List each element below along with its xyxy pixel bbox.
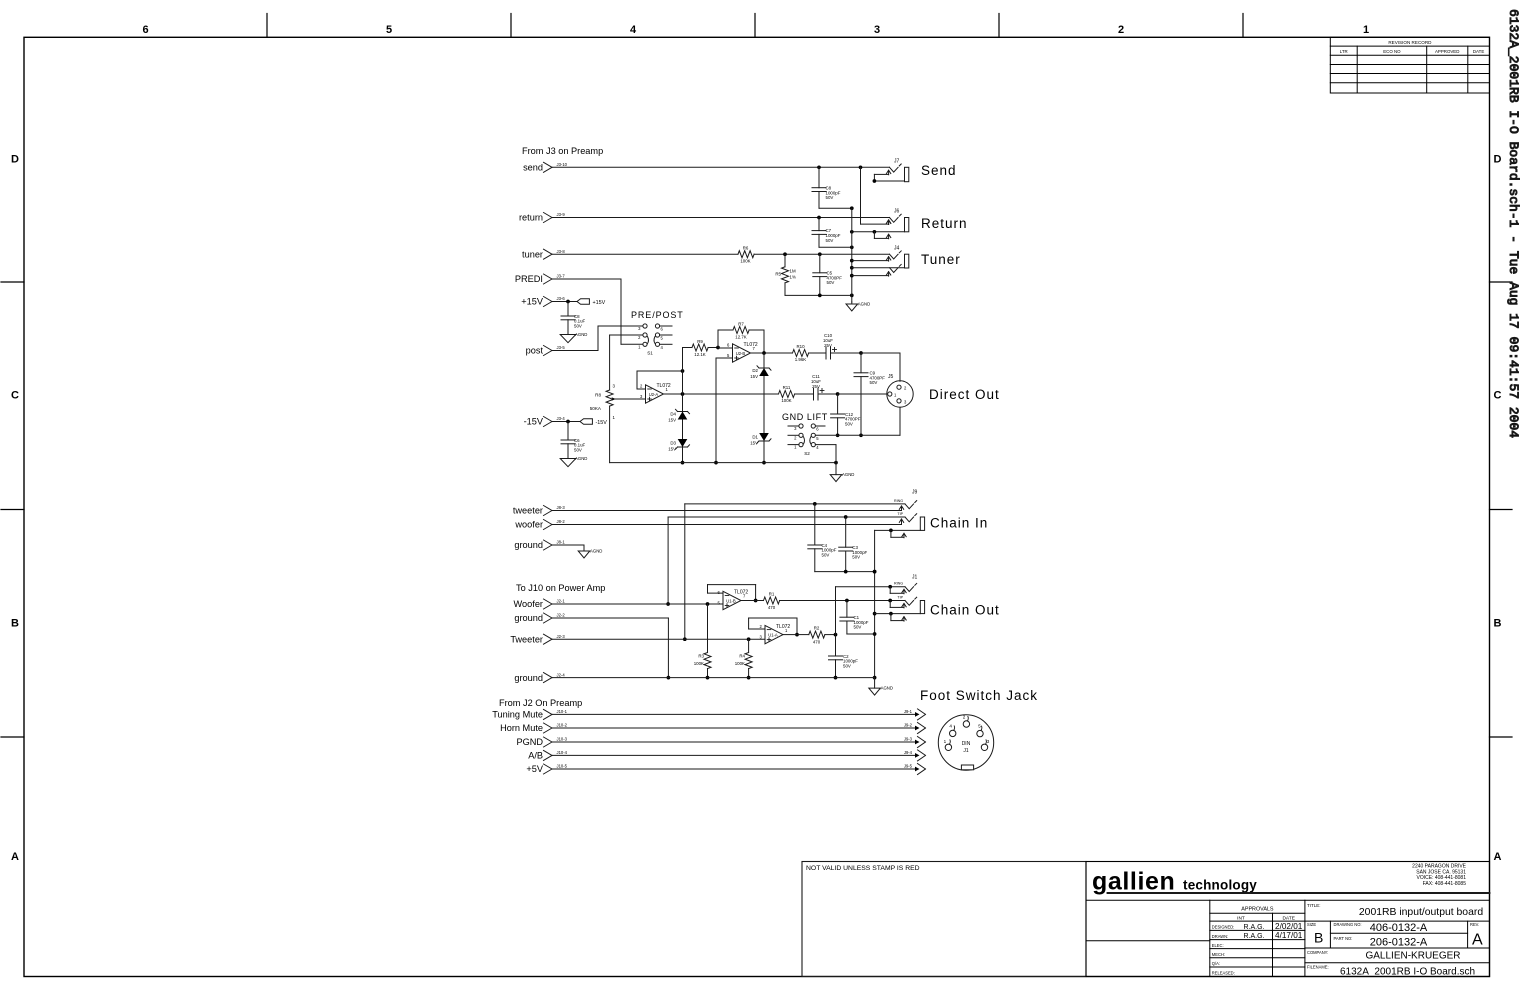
wire gnd lift net	[815, 407, 900, 435]
svg-text:50V: 50V	[845, 421, 853, 426]
svg-text:+15V: +15V	[521, 297, 544, 307]
svg-text:J9-2: J9-2	[904, 723, 913, 728]
svg-text:ground: ground	[514, 673, 543, 683]
svg-text:Tweeter: Tweeter	[510, 634, 543, 644]
svg-text:1%: 1%	[790, 275, 796, 280]
wire U2-B output net	[751, 351, 793, 355]
svg-text:J9-1: J9-1	[904, 709, 913, 714]
wire chain-out ring net	[836, 587, 906, 656]
capacitor C11 10uF	[795, 374, 840, 400]
svg-text:2/02/01: 2/02/01	[1275, 922, 1303, 931]
connector J5 XLR direct out	[887, 374, 913, 407]
wire chain-in tip net	[666, 515, 905, 606]
svg-text:DIN: DIN	[962, 741, 971, 747]
svg-text:J8-3: J8-3	[557, 505, 566, 510]
svg-text:AGND: AGND	[858, 302, 870, 307]
svg-text:AGND: AGND	[881, 686, 893, 691]
label Chain Out	[930, 603, 1000, 618]
switch S1 PRE/POST	[638, 324, 672, 356]
input port -15V (J3-4)	[524, 416, 566, 427]
input port woofer (J8-2)	[514, 519, 565, 530]
svg-text:-15V: -15V	[596, 420, 608, 426]
input port A/B (J10-4)	[528, 750, 567, 761]
svg-text:tuner: tuner	[522, 249, 543, 259]
svg-text:50V: 50V	[826, 238, 834, 243]
svg-text:6132A_2001RB I-O Board.sch-1 -: 6132A_2001RB I-O Board.sch-1 - Tue Aug 1…	[1506, 9, 1521, 438]
svg-text:AGND: AGND	[590, 549, 602, 554]
label Direct Out	[929, 387, 1000, 402]
svg-text:AGND: AGND	[575, 456, 587, 461]
svg-text:1: 1	[1363, 24, 1369, 36]
svg-text:D4: D4	[670, 412, 676, 417]
wire U1-B feedback	[708, 585, 758, 603]
capacitor C7 1000pF (return)	[812, 218, 854, 250]
power flag +15V	[553, 299, 606, 306]
svg-text:woofer: woofer	[514, 520, 543, 530]
resistor R3 100K	[694, 604, 711, 679]
jack J1 Chain Out	[875, 575, 925, 622]
svg-text:ground: ground	[514, 540, 543, 550]
svg-text:Chain In: Chain In	[930, 516, 988, 531]
svg-text:12.1K: 12.1K	[694, 352, 706, 357]
zener D2 15V	[750, 353, 771, 464]
wire U1-A feedback	[749, 618, 799, 636]
svg-text:R2: R2	[814, 626, 820, 631]
svg-text:B: B	[11, 618, 19, 630]
svg-text:J9-5: J9-5	[904, 764, 913, 769]
svg-text:J9-3: J9-3	[904, 737, 913, 742]
svg-text:470: 470	[813, 640, 821, 645]
svg-text:U2-A: U2-A	[649, 392, 659, 397]
svg-text:25V: 25V	[824, 343, 832, 348]
svg-text:+5V: +5V	[526, 764, 543, 774]
stamp box NOT VALID UNLESS STAMP IS RED	[802, 862, 1086, 977]
svg-text:RELEASED:: RELEASED:	[1212, 971, 1235, 976]
input port PGND (J10-3)	[516, 737, 567, 748]
svg-text:FAX: 408-441-8085: FAX: 408-441-8085	[1423, 881, 1467, 887]
svg-text:D: D	[11, 154, 19, 166]
svg-text:50V: 50V	[826, 195, 834, 200]
svg-text:PRE/POST: PRE/POST	[631, 310, 684, 320]
svg-text:DATE: DATE	[1473, 49, 1484, 54]
svg-text:A: A	[1472, 932, 1483, 949]
wire analog ground bus	[850, 208, 854, 302]
wire foot switch line J9-1	[553, 709, 926, 720]
svg-text:S1: S1	[647, 351, 653, 356]
svg-text:6132A_2001RB I-O Board.sch: 6132A_2001RB I-O Board.sch	[1340, 966, 1475, 977]
svg-text:Send: Send	[921, 163, 957, 178]
svg-text:2: 2	[963, 715, 966, 720]
input port ground (J8-1)	[514, 540, 565, 551]
svg-text:R6: R6	[743, 246, 749, 251]
svg-text:REVISION RECORD: REVISION RECORD	[1388, 40, 1432, 45]
svg-text:3: 3	[987, 739, 990, 744]
svg-text:B: B	[1314, 930, 1323, 946]
svg-text:J3-7: J3-7	[557, 274, 566, 279]
label PRE/POST	[631, 310, 684, 320]
wire S2 pin4 to ground	[815, 445, 836, 463]
svg-text:From J2 On Preamp: From J2 On Preamp	[499, 698, 582, 708]
wire tweeter amp input	[553, 637, 766, 641]
switch S2 GND LIFT	[788, 424, 825, 456]
input port Tuning Mute (J10-1)	[492, 709, 567, 720]
wire tweeter net	[553, 506, 904, 511]
svg-text:50V: 50V	[827, 280, 835, 285]
wire PREDI net	[553, 279, 644, 344]
svg-text:15V: 15V	[750, 374, 758, 379]
input port tuner (J3-8)	[522, 249, 565, 260]
svg-text:S2: S2	[804, 451, 810, 456]
resistor R2 470	[783, 626, 837, 645]
input port return (J3-9)	[519, 212, 565, 223]
svg-text:Woofer: Woofer	[514, 599, 543, 609]
svg-text:TL072: TL072	[776, 624, 790, 630]
svg-text:TIP: TIP	[897, 512, 903, 516]
svg-text:DRAWN:: DRAWN:	[1212, 934, 1228, 939]
label GND LIFT	[782, 412, 828, 422]
input port Horn Mute (J10-2)	[500, 723, 568, 734]
svg-text:R9: R9	[697, 339, 703, 344]
svg-text:TITLE:: TITLE:	[1307, 903, 1321, 908]
svg-text:2001RB input/output board: 2001RB input/output board	[1359, 907, 1483, 918]
svg-text:R1: R1	[769, 592, 775, 597]
svg-text:25V: 25V	[812, 384, 820, 389]
svg-text:J3-9: J3-9	[557, 212, 566, 217]
svg-text:J3-4: J3-4	[557, 416, 566, 421]
wire chain-in ring net	[683, 502, 905, 641]
svg-text:REV.: REV.	[1470, 922, 1479, 927]
svg-text:J10-1: J10-1	[557, 709, 568, 714]
svg-text:R8: R8	[595, 393, 601, 398]
zener D4 15V	[668, 409, 689, 422]
svg-text:J10-4: J10-4	[557, 750, 568, 755]
svg-text:J3-6: J3-6	[557, 296, 566, 301]
resistor R5 1M	[775, 254, 796, 295]
capacitor C3 1000pF	[839, 517, 877, 573]
svg-text:206-0132-A: 206-0132-A	[1370, 937, 1428, 949]
svg-text:Tuner: Tuner	[921, 252, 961, 267]
svg-text:15V: 15V	[668, 447, 676, 452]
wire send net	[553, 165, 891, 224]
resistor R11 100K	[779, 385, 795, 403]
svg-text:R3: R3	[698, 654, 704, 659]
connector J1 DIN foot switch jack	[938, 715, 993, 771]
svg-text:15V: 15V	[750, 441, 758, 446]
svg-text:J2-1: J2-1	[557, 599, 566, 604]
svg-text:D: D	[1494, 154, 1502, 166]
svg-text:5: 5	[386, 24, 392, 36]
wire return net	[553, 216, 890, 220]
svg-text:ground: ground	[514, 613, 543, 623]
resistor R9 12.1K	[683, 339, 720, 357]
note To J10 on Power Amp	[516, 583, 605, 593]
input port ground (J2-2)	[514, 613, 565, 624]
svg-text:J7: J7	[894, 159, 900, 165]
svg-text:GALLIEN-KRUEGER: GALLIEN-KRUEGER	[1365, 951, 1460, 962]
svg-text:From J3 on Preamp: From J3 on Preamp	[522, 146, 603, 156]
svg-text:50V: 50V	[852, 555, 860, 560]
svg-text:post: post	[526, 346, 544, 356]
svg-text:4: 4	[630, 24, 637, 36]
svg-text:technology: technology	[1183, 878, 1257, 893]
jack J6 Return	[850, 209, 909, 239]
svg-text:Tuning Mute: Tuning Mute	[492, 710, 543, 720]
label Chain In	[930, 516, 988, 531]
svg-text:To J10 on Power Amp: To J10 on Power Amp	[516, 583, 605, 593]
zener D1 15V	[750, 433, 771, 446]
svg-text:+15V: +15V	[593, 300, 606, 306]
svg-text:J8-1: J8-1	[557, 540, 566, 545]
svg-text:C: C	[11, 390, 19, 402]
svg-text:B: B	[1494, 618, 1502, 630]
svg-text:50V: 50V	[854, 625, 862, 630]
svg-text:PREDI: PREDI	[515, 274, 543, 284]
wire foot switch line J9-5	[553, 764, 926, 775]
svg-text:406-0132-A: 406-0132-A	[1370, 922, 1428, 934]
label Tuner	[921, 252, 961, 267]
svg-text:TL072: TL072	[657, 383, 671, 389]
svg-text:return: return	[519, 213, 543, 223]
svg-text:D1: D1	[752, 435, 758, 440]
svg-text:J4: J4	[894, 246, 900, 252]
svg-text:100K: 100K	[694, 661, 704, 666]
ground AGND (direct out)	[830, 463, 854, 482]
svg-text:J5: J5	[888, 374, 894, 380]
capacitor C8 1000pF (send)	[812, 167, 854, 210]
capacitor C12 4700PF	[831, 394, 861, 437]
svg-text:4/17/01: 4/17/01	[1275, 931, 1303, 940]
wire chain sleeve spine	[873, 530, 877, 679]
svg-text:50V: 50V	[870, 380, 878, 385]
svg-text:6: 6	[142, 24, 148, 36]
svg-text:ECO NO: ECO NO	[1383, 49, 1401, 54]
svg-text:50KA: 50KA	[590, 406, 602, 411]
title block	[1086, 862, 1490, 977]
input port +15V (J3-6)	[521, 296, 565, 307]
wire foot switch line J9-3	[553, 737, 926, 748]
svg-text:100K: 100K	[781, 398, 791, 403]
svg-text:-15V: -15V	[524, 417, 544, 427]
svg-text:U2-B: U2-B	[736, 351, 746, 356]
svg-text:TL072: TL072	[744, 342, 758, 348]
capacitor C10 10uF	[809, 333, 863, 359]
input port Woofer (J2-1)	[514, 599, 566, 610]
svg-text:DATE: DATE	[1282, 915, 1294, 921]
op-amp U1-B TL072	[708, 590, 749, 610]
svg-text:D2: D2	[752, 368, 758, 373]
capacitor C2 1000pF	[829, 654, 859, 680]
svg-text:APPROVALS: APPROVALS	[1241, 907, 1274, 913]
input port PREDI (J3-7)	[515, 274, 565, 285]
svg-text:tweeter: tweeter	[513, 506, 543, 516]
input port ground (J2-4)	[514, 672, 565, 683]
input port post (J3-5)	[526, 345, 566, 356]
svg-text:AGND: AGND	[842, 472, 854, 477]
svg-text:100K: 100K	[735, 661, 745, 666]
svg-text:R10: R10	[796, 344, 805, 349]
revision record table	[1330, 37, 1489, 93]
input port +5V (J10-5)	[526, 764, 567, 775]
input port send (J3-10)	[523, 162, 568, 173]
resistor R1 470	[741, 592, 905, 611]
svg-text:1: 1	[944, 739, 947, 744]
svg-text:U1-A: U1-A	[768, 632, 778, 637]
svg-text:A: A	[1494, 851, 1502, 863]
svg-text:Q/A:: Q/A:	[1212, 961, 1220, 966]
svg-text:DRAWING NO:: DRAWING NO:	[1334, 922, 1362, 927]
svg-text:DESIGNED:: DESIGNED:	[1212, 925, 1235, 930]
svg-text:J8-2: J8-2	[557, 519, 566, 524]
svg-text:R7: R7	[738, 322, 744, 327]
wire U2-B +in to ground rail	[714, 358, 718, 464]
zener D3 15V	[668, 439, 689, 452]
svg-text:AGND: AGND	[575, 332, 587, 337]
svg-text:J10-3: J10-3	[557, 737, 568, 742]
svg-text:J1: J1	[912, 575, 918, 581]
plot stamp text (vertical)	[1506, 9, 1521, 438]
svg-text:Foot Switch Jack: Foot Switch Jack	[920, 688, 1038, 703]
capacitor C8 0.1uF (+15V bypass)	[561, 302, 586, 334]
wire node R9/zener column	[681, 348, 685, 465]
op-amp U2-B TL072	[716, 342, 758, 362]
svg-text:MECH:: MECH:	[1212, 952, 1225, 957]
svg-text:R4: R4	[739, 654, 745, 659]
svg-text:15V: 15V	[668, 418, 676, 423]
note From J2 On Preamp	[499, 698, 582, 708]
svg-text:RING: RING	[894, 499, 903, 503]
wire post net	[553, 326, 644, 351]
jack J4 Tuner	[852, 246, 909, 277]
svg-text:GND LIFT: GND LIFT	[782, 412, 828, 422]
resistor R4 100K	[735, 639, 752, 679]
svg-text:1M: 1M	[790, 269, 796, 274]
svg-text:J9: J9	[912, 490, 918, 496]
capacitor C9 4700PF	[854, 353, 885, 437]
svg-text:COMPANY:: COMPANY:	[1307, 950, 1328, 955]
potentiometer R8 50KA	[590, 335, 646, 463]
svg-text:5: 5	[978, 724, 981, 729]
wire analog rail (direct out section)	[610, 461, 838, 465]
wire to XLR pin2	[861, 353, 900, 381]
input port Tweeter (J2-3)	[510, 634, 565, 645]
svg-text:100K: 100K	[740, 259, 750, 264]
svg-text:SIZE: SIZE	[1307, 922, 1316, 927]
svg-text:APPROVED: APPROVED	[1435, 49, 1459, 54]
svg-text:Direct Out: Direct Out	[929, 387, 1000, 402]
svg-text:470: 470	[768, 605, 776, 610]
approvals table text	[1212, 907, 1303, 976]
svg-text:PGND: PGND	[516, 737, 543, 747]
wire foot switch line J9-2	[553, 723, 926, 734]
wire S1 pin2 to R8	[610, 334, 643, 336]
svg-text:INT: INT	[1237, 915, 1245, 921]
svg-text:50V: 50V	[822, 552, 830, 557]
svg-text:J10-2: J10-2	[557, 723, 568, 728]
svg-text:2: 2	[1118, 24, 1124, 36]
svg-text:PART NO:: PART NO:	[1334, 936, 1353, 941]
svg-text:Return: Return	[921, 216, 968, 231]
input port tweeter (J8-3)	[513, 505, 565, 516]
resistor R6 100K	[738, 246, 754, 264]
ground AGND (+15V)	[560, 332, 587, 343]
svg-text:J1: J1	[963, 748, 969, 754]
wire U2-A feedback	[637, 369, 684, 389]
ground AGND (chain)	[869, 678, 893, 696]
svg-text:J2-2: J2-2	[557, 613, 566, 618]
svg-text:1.96K: 1.96K	[795, 357, 807, 362]
capacitor C5 4700PF (tuner)	[813, 254, 842, 295]
wire U2-A output net	[664, 392, 779, 396]
svg-text:R5: R5	[775, 272, 781, 277]
jack J7 Send	[873, 159, 909, 183]
svg-text:50V: 50V	[843, 663, 851, 668]
svg-text:J2-4: J2-4	[557, 672, 566, 677]
svg-text:FILENAME:: FILENAME:	[1307, 965, 1329, 970]
wire foot switch line J9-4	[553, 750, 926, 761]
svg-text:gallien: gallien	[1092, 868, 1175, 896]
op-amp U2-A TL072	[637, 383, 671, 403]
wire tuner ground rail	[785, 294, 854, 298]
op-amp U1-A TL072	[749, 624, 791, 644]
svg-text:A/B: A/B	[528, 751, 543, 761]
svg-text:R11: R11	[783, 385, 791, 390]
resistor R7 12.7K feedback	[718, 322, 764, 354]
svg-text:J6: J6	[894, 209, 900, 215]
svg-text:J3-5: J3-5	[557, 345, 566, 350]
svg-text:3: 3	[874, 24, 880, 36]
wire to XLR pin1	[838, 393, 887, 395]
svg-text:RING: RING	[894, 582, 903, 586]
title block text	[1307, 903, 1483, 978]
ground AGND (jack bus)	[846, 302, 870, 312]
wire woofer amp input	[553, 602, 724, 606]
svg-text:50V: 50V	[574, 323, 582, 328]
svg-text:A: A	[11, 851, 19, 863]
svg-text:50V: 50V	[574, 447, 582, 452]
svg-text:J3-10: J3-10	[557, 162, 568, 167]
capacitor C6 0.1uF (-15V bypass)	[561, 422, 586, 458]
svg-text:J3-8: J3-8	[557, 249, 566, 254]
label Foot Switch Jack	[920, 688, 1038, 703]
ground AGND (J8-1)	[553, 545, 603, 558]
svg-text:12.7K: 12.7K	[735, 335, 747, 340]
ground AGND (-15V)	[560, 456, 587, 467]
svg-text:R.A.G.: R.A.G.	[1243, 933, 1264, 940]
svg-text:send: send	[523, 163, 543, 173]
svg-text:LTR: LTR	[1340, 49, 1348, 54]
svg-text:J9-4: J9-4	[904, 750, 913, 755]
wire chain ground rail	[553, 677, 875, 679]
resistor R10 1.96K	[793, 344, 809, 362]
svg-text:NOT VALID UNLESS STAMP IS RED: NOT VALID UNLESS STAMP IS RED	[806, 865, 920, 872]
svg-text:Chain Out: Chain Out	[930, 603, 1000, 618]
svg-text:J10-5: J10-5	[557, 764, 568, 769]
svg-text:C: C	[1494, 390, 1502, 402]
label Send	[921, 163, 957, 178]
power flag -15V	[553, 419, 608, 426]
svg-text:R.A.G.: R.A.G.	[1243, 924, 1264, 931]
capacitor C1 1000pF	[840, 601, 875, 635]
address block	[1412, 864, 1466, 887]
wire woofer net	[553, 519, 904, 525]
jack J9 Chain In	[875, 490, 925, 538]
svg-text:Horn Mute: Horn Mute	[500, 723, 543, 733]
svg-text:D3: D3	[670, 441, 676, 446]
label Return	[921, 216, 968, 231]
svg-text:ELEC:: ELEC:	[1212, 943, 1224, 948]
svg-text:TIP: TIP	[897, 595, 903, 599]
wire tuner net	[553, 252, 890, 256]
